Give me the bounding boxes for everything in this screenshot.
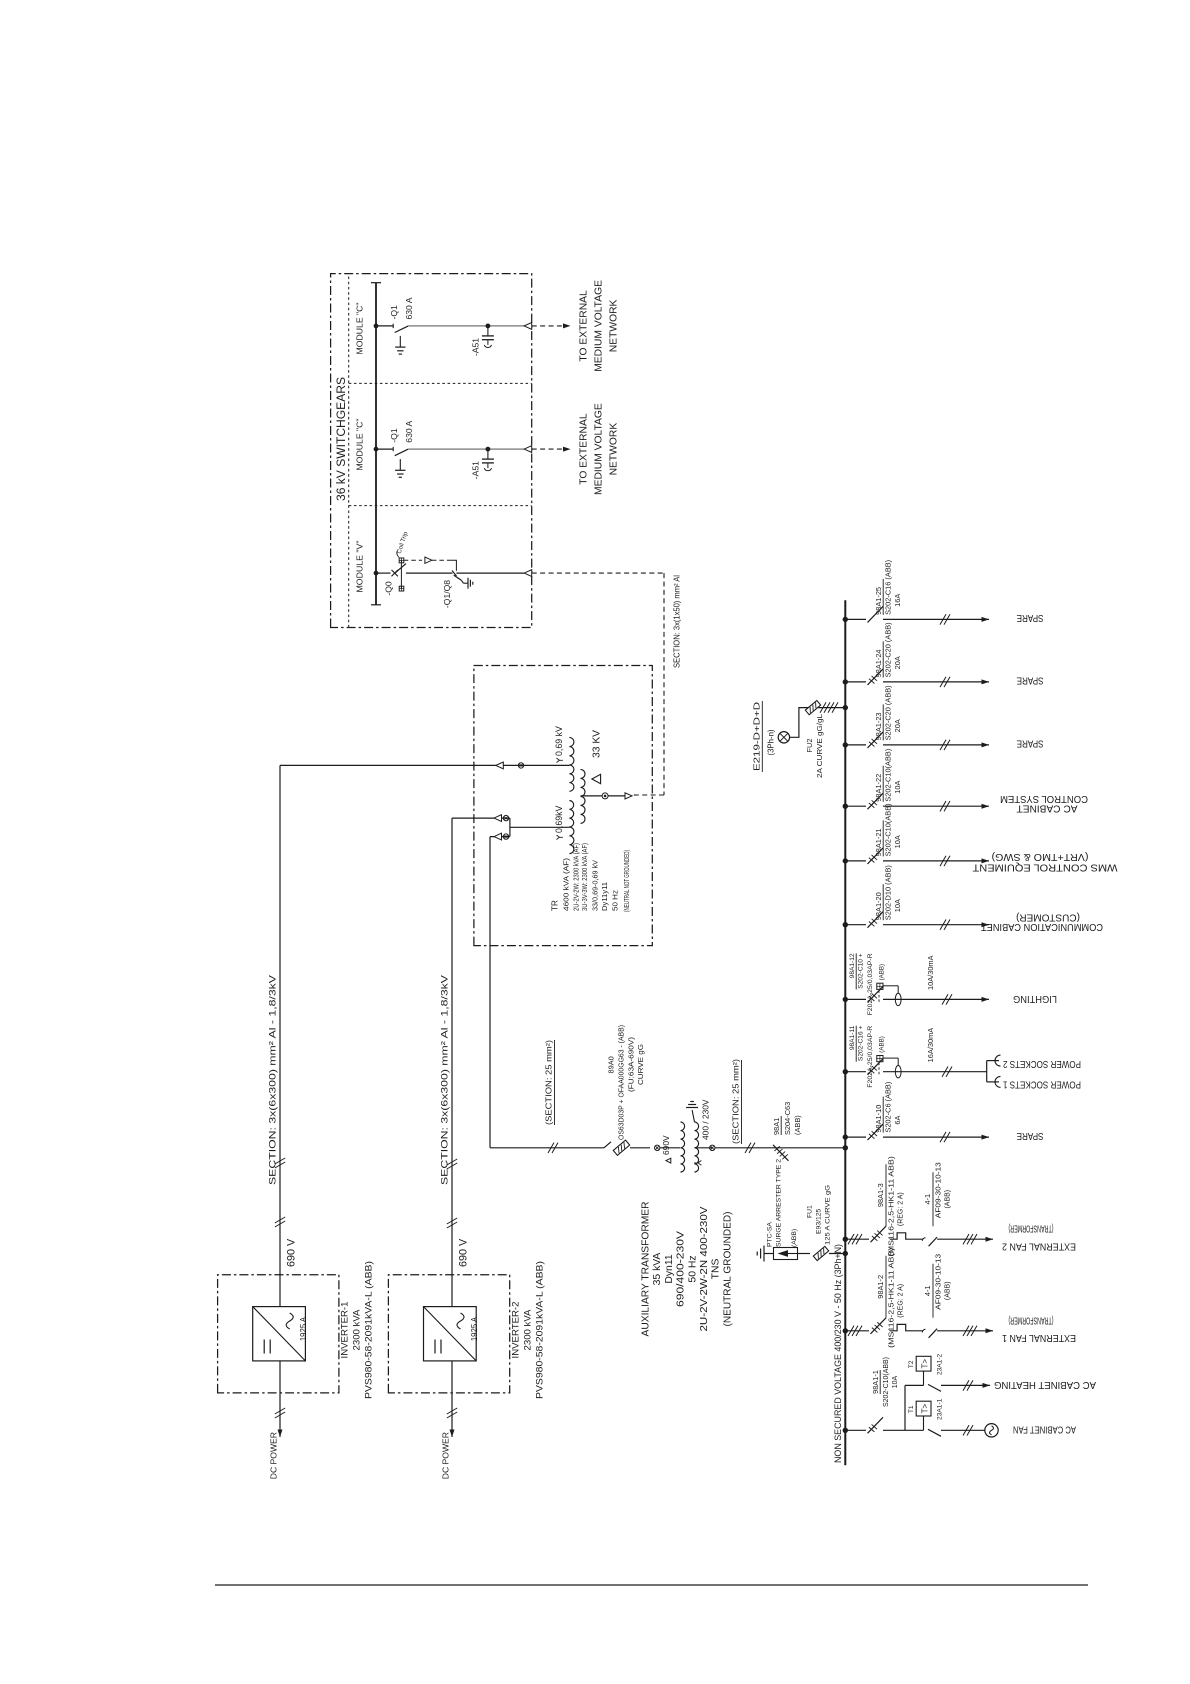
svg-text:630 A: 630 A <box>404 297 414 319</box>
inverter-2 enclosure (dash-dot box) <box>388 1275 509 1393</box>
feeder 98A1-1 breaker <box>845 1429 866 1431</box>
feeder 98A1-20 bus junction <box>843 922 848 927</box>
svg-text:T1: T1 <box>908 1405 915 1413</box>
svg-text:98A1-12: 98A1-12 <box>849 953 856 978</box>
inverter-2 DC input wire <box>451 1361 453 1437</box>
fan motor symbol <box>985 1424 998 1437</box>
svg-text:PVS980-58-2091kVA-L (ABB): PVS980-58-2091kVA-L (ABB) <box>364 1261 375 1399</box>
svg-text:NETWORK: NETWORK <box>609 299 620 352</box>
feeder 98A1-23 outgoing wire <box>883 744 989 746</box>
svg-text:0,69kV: 0,69kV <box>554 805 564 833</box>
LV distribution bus NON SECURED VOLTAGE <box>844 600 846 1465</box>
svg-text:690 V: 690 V <box>286 1238 298 1267</box>
aux transformer terminal marker upper <box>655 1145 660 1150</box>
svg-text:98A1-11: 98A1-11 <box>849 1025 856 1050</box>
svg-text:(ABB): (ABB) <box>791 1229 798 1247</box>
feeder 98A1-12 bus junction <box>843 997 848 1002</box>
fuse FU1 <box>798 1253 811 1255</box>
svg-text:AF09-30-10-13: AF09-30-10-13 <box>936 1254 943 1310</box>
svg-text:T2: T2 <box>908 1360 915 1368</box>
feeder 98A1-25 bus junction <box>843 617 848 622</box>
svg-text:CURVE gG: CURVE gG <box>638 1044 645 1085</box>
svg-text:NETWORK: NETWORK <box>609 423 620 476</box>
feeder 98A1-2 outgoing wire <box>958 1330 993 1332</box>
svg-text:(VRT+TMO & SWG): (VRT+TMO & SWG) <box>992 851 1089 862</box>
svg-text:-Q1/Q8: -Q1/Q8 <box>442 580 452 608</box>
svg-text:-Q1: -Q1 <box>389 305 399 320</box>
earthing switch earth symbol module V <box>462 580 464 583</box>
svg-text:(ABB): (ABB) <box>793 1115 802 1135</box>
svg-text:FU2: FU2 <box>805 739 814 753</box>
feeder 98A1-12 RCD test box <box>878 989 880 1002</box>
svg-text:LIGHTING: LIGHTING <box>1013 993 1057 1004</box>
svg-text:98A1-1: 98A1-1 <box>871 1370 880 1394</box>
svg-text:T>: T> <box>921 1359 930 1369</box>
svg-text:1925 A: 1925 A <box>299 1316 308 1341</box>
svg-text:TR: TR <box>551 900 560 911</box>
feeder 98A1-3 wire with break <box>845 1238 869 1240</box>
inverter-1 AC output wire 690V <box>279 765 281 1306</box>
feeder 98A1-22 outgoing wire <box>883 805 989 807</box>
svg-text:98A1: 98A1 <box>772 1118 781 1135</box>
svg-text:(REG: 2 A): (REG: 2 A) <box>898 1192 905 1226</box>
-Q0 interlock linkage bar <box>400 560 402 589</box>
switchgear busbar <box>375 283 377 605</box>
svg-text:10A: 10A <box>893 835 902 848</box>
lamp circuit break marks <box>820 702 826 712</box>
earthing switch module C2 <box>399 459 401 470</box>
svg-text:(3Ph-n): (3Ph-n) <box>767 729 776 755</box>
feeder 98A1-20 arrow <box>982 922 990 927</box>
svg-text:0,69 kV: 0,69 kV <box>554 726 564 756</box>
svg-text:16A/30mA: 16A/30mA <box>926 1028 935 1063</box>
switch fuse 89A0 <box>604 1142 611 1148</box>
svg-text:SPARE: SPARE <box>1016 612 1043 623</box>
LV2 wire A to inverter 2 <box>452 817 510 819</box>
contactor 4-1 of 98A1-2 <box>922 1329 925 1332</box>
svg-text:CONTROL SYSTEM: CONTROL SYSTEM <box>1000 793 1088 804</box>
module C2 cable termination arrow <box>524 446 532 453</box>
svg-text:PVS980-58-2091kVA-L (ABB): PVS980-58-2091kVA-L (ABB) <box>535 1261 546 1399</box>
svg-text:-A51: -A51 <box>471 338 481 356</box>
feeder 98A1-2 arrow <box>986 1328 994 1333</box>
svg-text:POWER SOCKETS 2: POWER SOCKETS 2 <box>1003 1058 1081 1069</box>
inverter-1 enclosure (dash-dot box) <box>218 1275 339 1393</box>
svg-text:36 kV SWITCHGEARS: 36 kV SWITCHGEARS <box>334 377 348 501</box>
aux transformer primary winding <box>681 1148 685 1172</box>
svg-text:690V: 690V <box>661 1135 671 1155</box>
svg-text:2U-2V-2W: 2300 kVA (AF): 2U-2V-2W: 2300 kVA (AF) <box>571 843 580 911</box>
svg-text:-Q0: -Q0 <box>384 581 394 596</box>
voltage detector -A51 module C1 <box>486 324 491 329</box>
svg-text:98A1-21: 98A1-21 <box>874 828 883 856</box>
svg-text:(SECTION: 25 mm²): (SECTION: 25 mm²) <box>732 1059 741 1144</box>
svg-text:98A1-25: 98A1-25 <box>874 587 883 615</box>
svg-text:2300 kVA: 2300 kVA <box>352 1309 363 1350</box>
svg-text:S202-C10 +: S202-C10 + <box>858 953 865 989</box>
svg-text:TO EXTERNAL: TO EXTERNAL <box>579 290 590 362</box>
svg-text:4-1: 4-1 <box>923 1194 932 1205</box>
svg-text:98A1-2: 98A1-2 <box>876 1275 885 1299</box>
aux transformer secondary winding <box>695 1148 699 1172</box>
svg-text:S202-C6 (ABB): S202-C6 (ABB) <box>884 1082 893 1133</box>
thermal element 98A1-2 <box>890 1324 923 1330</box>
feeder 98A1-3 arrow <box>986 1237 994 1242</box>
inverter-1 converter symbol <box>253 1307 306 1361</box>
inverter-2 AC output wire 690V <box>451 818 453 1307</box>
feeder 98A1-11 bus junction <box>843 1069 848 1074</box>
svg-text:(TRANSFORMER): (TRANSFORMER) <box>1009 1223 1054 1234</box>
svg-text:SECTION: 3x(6x300) mm² Al: SECTION: 3x(6x300) mm² Al - 1,8/3kV <box>268 974 278 1185</box>
feeder 98A1-24 outgoing wire <box>883 681 989 683</box>
bus junction surge arrester <box>843 1251 848 1256</box>
feeder 98A1-12 breaker with RCD <box>845 998 866 1000</box>
feeder 98A1-11 breaker with RCD <box>845 1071 866 1073</box>
svg-text:16A: 16A <box>893 594 902 607</box>
svg-text:10A: 10A <box>893 780 902 793</box>
TR HV terminal wire <box>581 795 603 797</box>
feeder 98A1-23 bus junction <box>843 742 848 747</box>
switchgear title separator <box>348 274 350 628</box>
svg-text:2A CURVE gG/gL: 2A CURVE gG/gL <box>815 714 824 778</box>
switch-disconnector -Q1/Q8 <box>406 572 453 574</box>
svg-text:E93/125: E93/125 <box>816 1208 823 1234</box>
TR LV1 terminal wire <box>280 764 569 766</box>
svg-text:(ABB): (ABB) <box>879 964 886 981</box>
svg-text:10A/30mA: 10A/30mA <box>926 955 935 990</box>
svg-text:S202-C10(ABB): S202-C10(ABB) <box>884 749 893 802</box>
svg-text:50 Hz: 50 Hz <box>610 890 619 911</box>
svg-text:630 A: 630 A <box>404 420 414 442</box>
inverter-1 DC input wire <box>279 1361 281 1437</box>
svg-text:T>: T> <box>921 1403 930 1413</box>
module C1 feeder wire <box>408 325 488 327</box>
module V cable termination arrow <box>524 570 532 577</box>
svg-text:E219-D+D+D: E219-D+D+D <box>753 701 762 771</box>
svg-text:2U-2V-2W-2N 400-230V: 2U-2V-2W-2N 400-230V <box>699 1206 710 1331</box>
motor starter 98A1-2 <box>871 1318 887 1334</box>
module V riser wire <box>376 572 391 574</box>
module V feeder wire to cable <box>456 572 524 574</box>
feeder 98A1-10 breaker <box>845 1136 866 1138</box>
svg-text:(ABB): (ABB) <box>945 1190 952 1209</box>
svg-text:F202A-25/0,03AP-R: F202A-25/0,03AP-R <box>867 1025 874 1087</box>
surge arrester PTC-SA <box>764 1253 774 1255</box>
svg-text:98A1-3: 98A1-3 <box>876 1183 885 1207</box>
svg-text:50 Hz: 50 Hz <box>687 1255 698 1282</box>
svg-text:6A: 6A <box>893 1115 902 1124</box>
feeder 98A1-25 breaker <box>845 618 866 620</box>
svg-text:(REG: 2 A): (REG: 2 A) <box>898 1284 905 1318</box>
svg-text:690/400-230V: 690/400-230V <box>676 1231 687 1307</box>
feeder 98A1-11 RCD toroid <box>883 1057 898 1059</box>
svg-text:PTC-SA: PTC-SA <box>767 1222 774 1247</box>
svg-text:98A1-10: 98A1-10 <box>874 1105 883 1133</box>
transformer TR enclosure (dash-dot box) <box>474 666 652 946</box>
feeder 98A1-25 arrow <box>982 617 990 622</box>
aux transformer delta <box>666 1158 671 1163</box>
module V bus junction <box>374 571 379 576</box>
svg-text:2300 kVA: 2300 kVA <box>523 1309 534 1350</box>
svg-text:OS63D03P + OFAA000GG63 - (ABB): OS63D03P + OFAA000GG63 - (ABB) <box>619 1025 626 1140</box>
svg-text:33/0,69-0,69 kV: 33/0,69-0,69 kV <box>590 859 599 911</box>
svg-text:(ABB): (ABB) <box>945 1281 952 1300</box>
svg-text:INVERTER-1: INVERTER-1 <box>340 1302 351 1359</box>
svg-text:AC CABINET HEATING: AC CABINET HEATING <box>994 1379 1096 1390</box>
svg-text:SPARE: SPARE <box>1016 675 1043 686</box>
feeder 98A1-24 arrow <box>982 679 990 684</box>
svg-text:NON SECURED VOLTAGE 400/230: NON SECURED VOLTAGE 400/230 V - 50 Hz (3… <box>833 1244 843 1463</box>
svg-text:400 / 230V: 400 / 230V <box>701 1099 711 1140</box>
feeder 98A1-3 outgoing wire <box>958 1238 993 1240</box>
svg-text:(SECTION: 25 mm²): (SECTION: 25 mm²) <box>545 1040 554 1125</box>
svg-text:3U-3V-3W: 2300 kVA (AF): 3U-3V-3W: 2300 kVA (AF) <box>580 843 589 911</box>
svg-text:S202-C16 +: S202-C16 + <box>858 1026 865 1062</box>
aux cable break marks lower <box>745 1143 751 1153</box>
svg-text:Dy11y11: Dy11y11 <box>600 882 609 911</box>
feeder 98A1-10 arrow <box>982 1135 990 1140</box>
svg-text:SECTION: 3x(6x300) mm² Al: SECTION: 3x(6x300) mm² Al - 1,8/3kV <box>440 974 450 1185</box>
svg-text:EXTERNAL FAN 2: EXTERNAL FAN 2 <box>1002 1240 1076 1251</box>
svg-text:SPARE: SPARE <box>1016 738 1043 749</box>
svg-text:SPARE: SPARE <box>1016 1130 1043 1141</box>
module separator 1 <box>349 382 532 384</box>
svg-text:S202-D10 (ABB): S202-D10 (ABB) <box>884 865 893 920</box>
socket symbol 2 <box>995 1055 1000 1066</box>
thermostat T2 <box>916 1356 931 1371</box>
svg-text:MEDIUM VOLTAGE: MEDIUM VOLTAGE <box>594 403 605 495</box>
TR LV2 terminal split <box>510 826 570 828</box>
svg-text:1925 A: 1925 A <box>470 1316 479 1341</box>
feeder 98A1-1 wire <box>883 1429 905 1431</box>
module separator 2 <box>349 505 532 507</box>
svg-text:23A1-1: 23A1-1 <box>937 1398 944 1420</box>
bus junction aux infeed <box>843 1145 848 1150</box>
svg-text:10A: 10A <box>892 1375 899 1388</box>
svg-text:23A1-2: 23A1-2 <box>937 1353 944 1375</box>
svg-text:MODULE "C": MODULE "C" <box>355 303 365 355</box>
LV1 terminal marker <box>518 763 523 768</box>
svg-text:FU1: FU1 <box>807 1205 814 1218</box>
svg-text:EXTERNAL FAN 1: EXTERNAL FAN 1 <box>1002 1332 1076 1343</box>
thermostat T1 <box>916 1401 931 1416</box>
svg-text:DC POWER: DC POWER <box>441 1432 451 1479</box>
svg-text:98A1-20: 98A1-20 <box>874 892 883 920</box>
svg-text:33 KV: 33 KV <box>592 730 603 758</box>
svg-text:S202-C16 (ABB): S202-C16 (ABB) <box>884 560 893 615</box>
-Q0 linkage box left <box>399 586 404 591</box>
feeder 98A1-3 bus junction <box>843 1237 848 1242</box>
svg-text:F202A-25/0,03AP-R: F202A-25/0,03AP-R <box>867 953 874 1015</box>
svg-text:89A0: 89A0 <box>607 1056 616 1073</box>
svg-text:POWER SOCKETS 1: POWER SOCKETS 1 <box>1003 1079 1081 1090</box>
feeder 98A1-1 bus junction <box>843 1428 848 1433</box>
inverter-2 converter symbol <box>424 1307 477 1361</box>
svg-text:98A1-24: 98A1-24 <box>874 649 883 677</box>
breaker 98A1 on aux wire <box>773 1145 789 1161</box>
feeder 98A1-12 arrow <box>982 997 990 1002</box>
module C2 outgoing arrow <box>563 447 571 452</box>
-Q0 linkage box right <box>399 558 404 563</box>
feeder 98A1-20 outgoing wire <box>883 924 989 926</box>
TR delta symbol <box>592 774 601 783</box>
svg-text:98A1-23: 98A1-23 <box>874 712 883 740</box>
module C2 outgoing dashed cable <box>532 448 563 450</box>
feeder 98A1-10 outgoing wire <box>883 1136 989 1138</box>
feeder 98A1-24 breaker <box>845 681 866 683</box>
feeder 98A1-10 bus junction <box>843 1134 848 1139</box>
svg-text:20A: 20A <box>893 656 902 669</box>
disconnector -Q0 <box>392 570 398 576</box>
svg-text:MODULE "V": MODULE "V" <box>355 541 365 593</box>
svg-text:(NEUTRAL GROUNDED): (NEUTRAL GROUNDED) <box>722 1212 733 1327</box>
svg-text:(ABB): (ABB) <box>879 1036 886 1053</box>
feeder 98A1-22 breaker <box>845 805 866 807</box>
svg-text:S202-C10(ABB): S202-C10(ABB) <box>884 803 893 856</box>
feeder 98A1-21 outgoing wire <box>883 860 989 862</box>
svg-text:690 V: 690 V <box>458 1238 470 1267</box>
earthing switch module C1 <box>399 336 401 347</box>
svg-text:S202-C20 (ABB): S202-C20 (ABB) <box>884 622 893 677</box>
LV1 cable termination arrow <box>496 762 504 769</box>
module C2 feeder wire <box>408 448 488 450</box>
voltage detector -A51 module C2 <box>486 447 491 452</box>
contactor 4-1 of 98A1-3 <box>922 1238 925 1241</box>
feeder 98A1-12 outgoing wire <box>883 998 989 1000</box>
svg-text:MODULE "C": MODULE "C" <box>355 419 365 471</box>
feeder 98A1-21 bus junction <box>843 858 848 863</box>
svg-text:20A: 20A <box>893 719 902 732</box>
lamp wire to bus <box>790 708 846 738</box>
svg-text:Dyn11: Dyn11 <box>664 1254 675 1283</box>
svg-text:35 kVA: 35 kVA <box>652 1253 663 1286</box>
svg-text:S202-C10(ABB): S202-C10(ABB) <box>883 1357 890 1407</box>
thermostat switch blade T2 <box>928 1384 941 1391</box>
heating branch wire arrow <box>958 1384 990 1386</box>
module C1 outgoing dashed cable <box>532 325 563 327</box>
feeder 98A1-12 RCD toroid <box>883 985 898 987</box>
svg-text:98A1-22: 98A1-22 <box>874 774 883 802</box>
TR HV winding <box>581 796 586 823</box>
trip linkage dashed to -Q1/Q8 <box>404 559 422 561</box>
TR LV winding 2 <box>569 827 574 854</box>
TR LV winding 1 <box>569 765 574 791</box>
svg-text:(TRANSFORMER): (TRANSFORMER) <box>1009 1314 1054 1325</box>
svg-text:(MS116-2,5-HK1-11 ABB): (MS116-2,5-HK1-11 ABB) <box>889 1156 896 1256</box>
svg-text:AF09-30-10-13: AF09-30-10-13 <box>936 1162 943 1218</box>
svg-text:SURGE ARRESTER TYPE 2: SURGE ARRESTER TYPE 2 <box>776 1159 783 1247</box>
coil trip spring <box>397 551 399 558</box>
svg-text:125 A CURVE gG: 125 A CURVE gG <box>825 1185 832 1245</box>
svg-text:S202-C20 (ABB): S202-C20 (ABB) <box>884 685 893 740</box>
svg-text:MEDIUM VOLTAGE: MEDIUM VOLTAGE <box>594 280 605 372</box>
svg-text:TNS: TNS <box>711 1259 722 1280</box>
thermostat switch blade T1 <box>928 1429 941 1436</box>
svg-text:(FU:63A-690V): (FU:63A-690V) <box>629 1037 636 1092</box>
aux feed wire from TR LV2 <box>489 837 491 1148</box>
thermal element 98A1-3 <box>890 1233 923 1239</box>
circuit breaker -Q1 module C1 <box>376 325 393 327</box>
svg-text:SECTION: 3x(1x50) mm² Al: SECTION: 3x(1x50) mm² Al <box>673 575 682 668</box>
feeder 98A1-20 breaker <box>845 924 866 926</box>
36 kV switchgear enclosure (dash-dot box) <box>331 274 532 628</box>
svg-text:AUXILIARY TRANSFORMER: AUXILIARY TRANSFORMER <box>641 1201 652 1336</box>
svg-text:(NEUTRAL NOT GROUNDED): (NEUTRAL NOT GROUNDED) <box>622 850 631 912</box>
svg-text:(MS116-2,5-HK1-11 ABB): (MS116-2,5-HK1-11 ABB) <box>889 1248 896 1348</box>
module C2 bus junction <box>374 447 379 452</box>
feeder 98A1-21 arrow <box>982 858 990 863</box>
svg-text:4600 kVA (AF): 4600 kVA (AF) <box>562 858 571 911</box>
LV2 wire B to auxiliary transformer <box>490 836 510 838</box>
branch to heating <box>904 1385 906 1430</box>
svg-text:AC CABINET FAN: AC CABINET FAN <box>1013 1424 1076 1435</box>
bus junction lamp branch <box>843 705 848 710</box>
feeder 98A1-24 bus junction <box>843 679 848 684</box>
svg-text:TO EXTERNAL: TO EXTERNAL <box>579 413 590 485</box>
circuit breaker -Q1 module C2 <box>376 448 393 450</box>
module C1 outgoing arrow <box>563 323 571 328</box>
feeder 98A1-2 wire with break <box>845 1330 869 1332</box>
svg-text:INVERTER-2: INVERTER-2 <box>511 1302 522 1359</box>
svg-text:S204-C63: S204-C63 <box>783 1102 792 1135</box>
aux transformer terminal marker lower <box>695 1147 713 1149</box>
feeder 98A1-23 breaker <box>845 744 866 746</box>
svg-text:4-1: 4-1 <box>923 1285 932 1296</box>
feeder 98A1-22 arrow <box>982 804 990 809</box>
svg-text:10A: 10A <box>893 899 902 912</box>
MV cable dashed run to transformer <box>532 572 664 574</box>
motor starter 98A1-3 <box>871 1226 887 1242</box>
aux secondary earth stub <box>692 1110 694 1122</box>
feeder 98A1-25 outgoing wire <box>883 618 989 620</box>
feeder 98A1-2 bus junction <box>843 1328 848 1333</box>
aux cable break marks <box>548 1143 554 1153</box>
feeder 98A1-23 arrow <box>982 742 990 747</box>
power sockets fork <box>986 1061 988 1082</box>
socket symbol 1 <box>995 1076 1000 1087</box>
svg-text:DC POWER: DC POWER <box>269 1432 279 1479</box>
pilot lamp E219 <box>778 732 789 743</box>
page frame line (drawing border) <box>215 1584 1088 1586</box>
fuse FU2 <box>805 700 820 714</box>
feeder 98A1-11 outgoing wire <box>883 1071 987 1073</box>
surge arrester earth <box>763 1246 765 1262</box>
feeder 98A1-21 breaker <box>845 860 866 862</box>
feeder 98A1-11 RCD test box <box>878 1062 880 1075</box>
svg-text:(CUSTOMER): (CUSTOMER) <box>1016 912 1080 923</box>
fan branch wire <box>958 1429 985 1431</box>
module C1 cable termination arrow <box>524 323 532 330</box>
svg-text:-A51: -A51 <box>471 461 481 479</box>
aux secondary wye mark <box>694 1161 701 1166</box>
module C1 bus junction <box>374 324 379 329</box>
feeder 98A1-22 bus junction <box>843 804 848 809</box>
svg-text:-Q1: -Q1 <box>389 428 399 443</box>
